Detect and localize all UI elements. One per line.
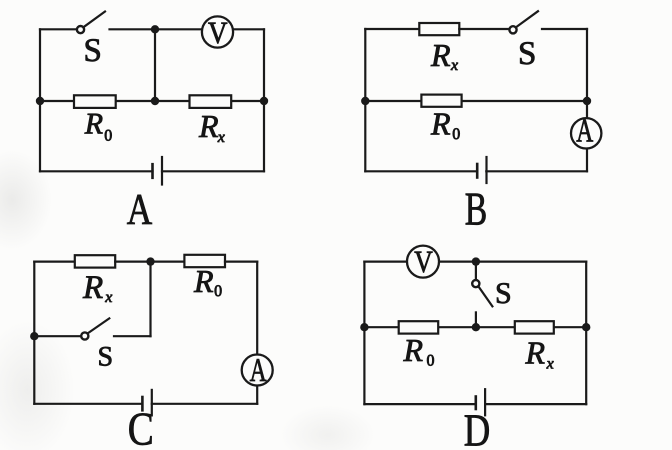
- svg-text:R: R: [525, 335, 546, 371]
- node : D middle-center junction: [472, 323, 480, 331]
- svg-text:R: R: [198, 108, 219, 144]
- wire : D right vertical: [585, 262, 587, 405]
- ammeter A (circuit B): [571, 114, 601, 150]
- svg-text:A: A: [127, 185, 153, 234]
- svg-text:C: C: [128, 404, 154, 450]
- label B (answer choice): [465, 183, 488, 235]
- battery (circuit A): [153, 157, 163, 185]
- node : A middle-center junction: [151, 97, 159, 105]
- switch S (circuit B): [509, 11, 538, 33]
- switch S (circuit D): [472, 280, 492, 306]
- wire : A switch to top-right corner: [110, 28, 265, 30]
- label A (answer choice): [127, 185, 153, 234]
- wire : D stub from top junction to switch: [475, 262, 477, 280]
- wire : C left vertical: [33, 262, 35, 404]
- svg-text:x: x: [450, 57, 458, 74]
- node : C top junction: [146, 257, 154, 265]
- label Rx (circuit D): [525, 335, 554, 373]
- resistor R0 (circuit D): [399, 321, 439, 333]
- voltmeter V (circuit D): [407, 244, 439, 279]
- resistor Rx (circuit D): [515, 321, 554, 333]
- svg-text:R: R: [430, 37, 451, 73]
- wire : B switch to top-right corner: [542, 28, 587, 30]
- wire : C top-left to Rx: [34, 261, 75, 263]
- switch S (circuit C): [81, 318, 109, 339]
- wire : C bottom right to battery: [152, 403, 257, 405]
- wire : C right vertical lower (ammeter to bottom): [256, 387, 258, 404]
- resistor R0 (circuit C): [184, 255, 225, 267]
- svg-text:0: 0: [214, 283, 222, 300]
- wire : B right vertical lower (ammeter to bottom): [586, 149, 588, 172]
- svg-text:B: B: [465, 183, 488, 235]
- wire : B left vertical: [364, 29, 366, 171]
- node : C middle-left junction: [30, 332, 38, 340]
- wire : B Rx to switch: [459, 28, 508, 30]
- svg-text:S: S: [495, 277, 512, 310]
- resistor R0 (circuit B): [421, 95, 461, 107]
- node : A middle-right junction: [260, 97, 268, 105]
- wire : D battery to bottom-right: [485, 403, 586, 405]
- wire : C switch to center vertical: [114, 335, 151, 337]
- label C (answer choice): [128, 404, 154, 450]
- label R0 (circuit A): [84, 108, 113, 145]
- label Rx (circuit B): [430, 37, 458, 74]
- wire : D top horizontal: [364, 261, 586, 263]
- wire : B bottom right to battery: [486, 170, 587, 172]
- wire : C battery to bottom-left: [34, 403, 142, 405]
- faint scan smudge bottom-center: [280, 405, 375, 450]
- wire : A right vertical: [263, 29, 265, 171]
- switch S (circuit A): [77, 12, 105, 34]
- svg-text:V: V: [208, 15, 228, 50]
- battery (circuit C): [142, 390, 151, 416]
- wire : D stub from switch to middle junction: [475, 312, 477, 327]
- label Rx (circuit C): [82, 270, 112, 306]
- label S (circuit C): [98, 342, 114, 373]
- wire : C right vertical upper (to ammeter): [256, 262, 258, 354]
- label S (circuit A): [84, 33, 102, 69]
- wire : A top-left to switch: [40, 28, 76, 30]
- wire : A center vertical from top junction to middle wire: [154, 29, 156, 101]
- svg-text:S: S: [98, 342, 114, 373]
- node : D top junction: [472, 257, 480, 265]
- node : D middle-left junction: [360, 323, 368, 331]
- svg-text:R: R: [403, 332, 424, 368]
- wire : B top-left to Rx: [365, 28, 419, 30]
- ammeter A (circuit C): [242, 353, 273, 389]
- wire : B right vertical upper (to ammeter): [586, 29, 588, 117]
- resistor R0 (circuit A): [74, 95, 116, 108]
- label R0 (circuit C): [193, 263, 222, 300]
- resistor Rx (circuit B): [419, 23, 459, 35]
- wire : A bottom-left to battery: [40, 170, 153, 172]
- wire : D left vertical: [363, 262, 365, 405]
- faint scan smudge bottom-left: [0, 320, 75, 450]
- wire : D middle horizontal: [364, 326, 586, 328]
- svg-text:S: S: [518, 36, 536, 72]
- wire : C center vertical from top junction to switch branch: [149, 262, 151, 337]
- svg-text:A: A: [250, 353, 267, 389]
- wire : D bottom left to battery: [364, 403, 475, 405]
- svg-text:R: R: [193, 263, 214, 299]
- svg-text:x: x: [546, 356, 554, 373]
- label S (circuit B): [518, 36, 536, 72]
- battery (circuit B): [477, 157, 486, 183]
- svg-text:x: x: [104, 289, 112, 306]
- label S (circuit D): [495, 277, 512, 310]
- wire : A left vertical: [39, 29, 41, 171]
- svg-text:R: R: [430, 106, 451, 142]
- voltmeter V (circuit A): [202, 15, 233, 50]
- svg-text:0: 0: [427, 353, 435, 370]
- wire : B middle horizontal left part: [365, 100, 421, 102]
- label R0 (circuit D): [403, 332, 435, 370]
- wire : A middle horizontal: [40, 100, 264, 102]
- node : D middle-right junction: [582, 323, 590, 331]
- svg-text:x: x: [217, 129, 225, 146]
- wire : C Rx to R0: [115, 261, 184, 263]
- svg-text:A: A: [576, 114, 593, 150]
- svg-text:R: R: [82, 270, 103, 306]
- battery (circuit D): [476, 389, 485, 415]
- svg-text:R: R: [84, 108, 103, 141]
- label D (answer choice): [464, 404, 491, 450]
- wire : A battery to bottom-right: [162, 170, 264, 172]
- label Rx (circuit A): [198, 108, 225, 146]
- node : B middle-right junction: [583, 97, 591, 105]
- svg-text:0: 0: [104, 128, 112, 145]
- faint scan smudge left margin: [0, 150, 52, 250]
- wire : B battery to bottom-left: [365, 170, 477, 172]
- node : A middle-left junction: [36, 97, 44, 105]
- svg-text:S: S: [84, 33, 102, 69]
- node : B middle-left junction: [361, 97, 369, 105]
- svg-text:D: D: [464, 404, 491, 450]
- label R0 (circuit B): [430, 106, 460, 144]
- wire : B middle horizontal right part: [462, 100, 587, 102]
- wire : C R0 to top-right corner: [225, 261, 257, 263]
- resistor Rx (circuit A): [190, 95, 232, 108]
- svg-text:0: 0: [452, 126, 460, 143]
- node : A top middle junction: [151, 25, 159, 33]
- svg-text:V: V: [414, 244, 433, 279]
- resistor Rx (circuit C): [75, 255, 115, 267]
- wire : C switch branch left part: [34, 335, 80, 337]
